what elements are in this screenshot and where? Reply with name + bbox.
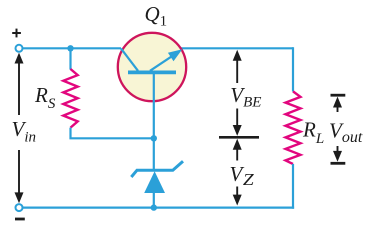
svg-text:Vout: Vout xyxy=(329,118,363,146)
minus sign xyxy=(15,218,25,221)
wire bottom rail xyxy=(23,207,294,209)
svg-text:RS: RS xyxy=(34,83,56,112)
terminal negative input xyxy=(16,204,23,211)
svg-text:Q1: Q1 xyxy=(145,2,168,29)
transistor Q1 circle xyxy=(118,33,186,101)
zener diode cathode bar xyxy=(131,161,183,177)
wire RS top lead xyxy=(69,48,71,69)
transistor Q1 emitter line with arrow xyxy=(150,49,182,71)
wire RS bottom lead xyxy=(71,128,155,139)
node junction RS top xyxy=(67,45,73,51)
wire zener bottom lead xyxy=(153,192,155,208)
wire right branch bottom xyxy=(292,164,294,209)
transistor Q1 base bar xyxy=(128,71,176,75)
wire top rail right xyxy=(181,47,293,49)
transistor Q1 collector line xyxy=(121,49,138,71)
node junction bottom xyxy=(151,204,157,210)
terminal positive input xyxy=(16,45,23,52)
VZ arrow xyxy=(233,139,242,206)
svg-text:Vin: Vin xyxy=(12,117,37,146)
resistor RL xyxy=(286,91,301,164)
VBE arrow xyxy=(233,50,242,136)
svg-text:VBE: VBE xyxy=(230,83,261,111)
svg-text:RL: RL xyxy=(302,118,324,148)
plus sign xyxy=(12,29,21,38)
svg-text:VZ: VZ xyxy=(230,162,255,189)
wire top rail left xyxy=(23,47,121,49)
Vin arrow xyxy=(15,53,24,204)
wire right branch top xyxy=(292,47,294,91)
resistor RS xyxy=(63,69,77,128)
Vout arrow xyxy=(331,95,346,163)
zener diode anode triangle xyxy=(144,171,165,193)
node junction base xyxy=(151,135,157,141)
VBE VZ divider bar xyxy=(219,136,259,139)
wire base lead xyxy=(153,74,155,169)
